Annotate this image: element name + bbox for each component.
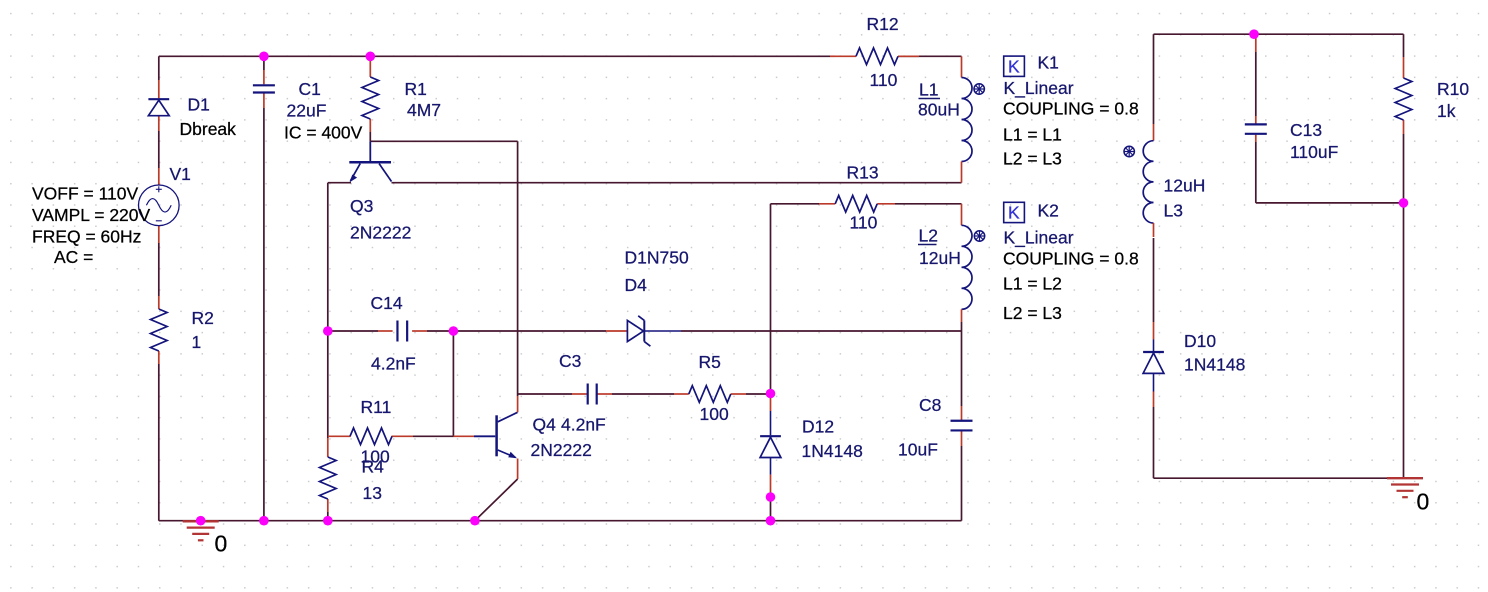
capacitor C3 (572, 393, 587, 395)
diode D12 (770, 394, 772, 411)
svg-text:12uH: 12uH (919, 248, 961, 268)
svg-text:1k: 1k (1437, 101, 1456, 121)
phase dot L2 (974, 231, 984, 241)
svg-text:C3: C3 (559, 351, 581, 371)
inductor L2 (961, 204, 963, 226)
capacitor C8 (961, 406, 963, 421)
svg-text:K: K (1008, 203, 1020, 223)
svg-text:R1: R1 (405, 79, 427, 99)
wire R13 line left vertical (770, 204, 772, 394)
wire C13 to R10 junction (1256, 202, 1404, 204)
svg-text:Dbreak: Dbreak (180, 119, 237, 139)
svg-text:K_Linear: K_Linear (1004, 78, 1074, 99)
svg-text:R4: R4 (362, 457, 385, 477)
svg-text:D1: D1 (188, 95, 210, 115)
svg-text:K: K (1008, 57, 1020, 77)
svg-text:22uF: 22uF (287, 101, 327, 121)
svg-text:D10: D10 (1184, 331, 1216, 351)
svg-text:K2: K2 (1038, 201, 1059, 221)
wire D12 to bottom (770, 497, 772, 521)
capacitor C1 (263, 70, 265, 84)
coupling K1 (1004, 56, 1025, 76)
wire left column upper (158, 56, 160, 80)
phase dot L3 (1124, 146, 1134, 156)
svg-text:10uF: 10uF (898, 440, 938, 460)
svg-text:1N4148: 1N4148 (1184, 355, 1245, 375)
phase dot L1 (974, 84, 984, 94)
svg-text:4.2nF: 4.2nF (371, 354, 416, 374)
resistor R13 (819, 203, 835, 205)
junction right top (1249, 29, 1259, 39)
wire C14 left to R11 corner (327, 331, 329, 438)
wire Q3 emitter to left column (328, 182, 351, 184)
svg-text:L3: L3 (1164, 201, 1183, 221)
wire D10 to corner (1153, 407, 1155, 478)
svg-text:13: 13 (363, 483, 382, 503)
svg-text:110: 110 (870, 70, 898, 90)
wire bottom bus (159, 520, 962, 522)
svg-text:0: 0 (1417, 489, 1430, 515)
svg-text:R13: R13 (847, 163, 879, 183)
wire D1 to V1 (158, 131, 160, 168)
resistor R11 (328, 435, 351, 437)
wire Q4 collector column (517, 141, 519, 396)
wire L2 bottom to C8 line (961, 322, 963, 331)
svg-text:110uF: 110uF (1290, 142, 1338, 162)
wire L3 to D10 (1153, 238, 1155, 322)
svg-text:C8: C8 (919, 395, 941, 415)
junction bottom ground (196, 516, 206, 526)
wire C8 column lower (961, 446, 963, 521)
svg-text:R10: R10 (1437, 79, 1469, 99)
wire R10 junction to ground (1403, 203, 1405, 478)
svg-text:L1 = L2: L1 = L2 (1003, 274, 1062, 294)
wire C3 line left (518, 393, 572, 395)
svg-text:0: 0 (215, 531, 228, 557)
ground left (183, 520, 219, 522)
svg-text:D12: D12 (802, 417, 834, 437)
junction bottom C1 (259, 516, 269, 526)
wire C14 line right (427, 330, 453, 332)
svg-text:Q4: Q4 (533, 415, 557, 435)
resistor R4 (327, 438, 329, 457)
svg-text:R5: R5 (699, 352, 721, 372)
wire C14 right stem down (452, 331, 454, 437)
svg-text:12uH: 12uH (1164, 176, 1206, 196)
svg-text:1N4148: 1N4148 (802, 441, 863, 461)
resistor R2 (158, 296, 160, 309)
svg-text:L1 = L1: L1 = L1 (1003, 125, 1062, 145)
wire C1 column (263, 56, 265, 70)
wire C8 column upper (961, 331, 963, 406)
junction bottom R4 (323, 516, 333, 526)
svg-text:100: 100 (700, 404, 729, 424)
resistor R12 (830, 55, 835, 57)
wire D4 line right (681, 330, 962, 332)
svg-text:L2 = L3: L2 = L3 (1003, 303, 1062, 323)
wire R1 lower lead to branch (369, 132, 371, 141)
wire Q4 emitter diagonal (475, 479, 518, 521)
svg-text:R11: R11 (361, 397, 392, 417)
junction top R1 (366, 52, 376, 62)
svg-text:L1: L1 (919, 80, 938, 100)
wire V1 to R2 (158, 243, 160, 296)
resistor R5 (674, 393, 689, 395)
wire D4 line left (453, 330, 606, 332)
resistor R1 (369, 56, 371, 77)
wire R10 column top (1403, 34, 1405, 57)
svg-text:80uH: 80uH (918, 100, 960, 120)
wire R2 to bottom (158, 364, 160, 521)
svg-text:R2: R2 (192, 308, 214, 328)
svg-text:K1: K1 (1038, 53, 1059, 73)
wire right bottom (1154, 477, 1404, 479)
junction right mid (1399, 198, 1409, 208)
svg-text:FREQ = 60Hz: FREQ = 60Hz (32, 227, 141, 247)
junction R5 right (766, 389, 776, 399)
svg-text:VOFF = 110V: VOFF = 110V (32, 184, 139, 204)
resistor R10 (1403, 57, 1405, 78)
svg-text:4M7: 4M7 (407, 100, 441, 120)
wire L3 column upper (1153, 34, 1155, 124)
svg-text:2N2222: 2N2222 (531, 440, 592, 460)
diode D1 (158, 80, 160, 98)
wire R4 bottom stub (327, 512, 329, 521)
wire R1 branch horizontal (370, 140, 517, 142)
coupling K2 (1004, 202, 1025, 222)
svg-text:Q3: Q3 (350, 196, 373, 216)
wire R5 to D12 column (746, 393, 771, 395)
svg-text:1: 1 (192, 332, 202, 352)
wire C13 column (1255, 52, 1257, 116)
capacitor C14 (378, 330, 393, 332)
svg-text:L2 = L3: L2 = L3 (1003, 149, 1062, 169)
svg-text:D4: D4 (625, 275, 648, 295)
svg-text:K_Linear: K_Linear (1004, 228, 1074, 249)
svg-text:IC = 400V: IC = 400V (284, 123, 363, 143)
diode D10 (1153, 322, 1155, 340)
wire top bus (159, 55, 830, 57)
wire Q3 collector to L1 (392, 182, 962, 184)
wire C3 to R5 (612, 393, 674, 395)
svg-text:AC =: AC = (54, 247, 93, 267)
svg-text:R12: R12 (867, 14, 899, 34)
wire right top bus (1154, 33, 1404, 35)
wire R13 line (771, 203, 820, 205)
junction C14 left (323, 326, 333, 336)
capacitor C13 (1255, 34, 1257, 52)
wire C13 bottom corner (1255, 142, 1257, 203)
junction bottom D12 (766, 516, 776, 526)
ground right (1387, 477, 1423, 479)
svg-text:COUPLING = 0.8: COUPLING = 0.8 (1003, 249, 1139, 269)
svg-text:C1: C1 (299, 79, 321, 99)
junction D12 bottom (766, 492, 776, 502)
wire C14 line left (328, 330, 378, 332)
wire left small column (327, 183, 329, 331)
junction bottom Q4 (470, 516, 480, 526)
svg-text:4.2nF: 4.2nF (561, 415, 606, 435)
wire R10 to junction (1403, 134, 1405, 203)
svg-text:C13: C13 (1290, 120, 1322, 140)
svg-text:V1: V1 (170, 164, 191, 184)
svg-text:110: 110 (850, 213, 878, 233)
zener diode D4 (606, 330, 627, 332)
inductor L1 (961, 56, 963, 77)
svg-text:C14: C14 (371, 293, 403, 313)
junction top C1 (259, 52, 269, 62)
inductor L3 (1153, 124, 1155, 141)
transistor Q3 (369, 141, 371, 161)
svg-text:L2: L2 (919, 226, 938, 246)
junction C14 right (449, 326, 459, 336)
source V1 (158, 168, 160, 185)
transistor Q4 (495, 415, 498, 456)
svg-text:COUPLING = 0.8: COUPLING = 0.8 (1003, 99, 1139, 119)
svg-text:2N2222: 2N2222 (350, 223, 411, 243)
svg-text:D1N750: D1N750 (625, 248, 689, 268)
svg-text:VAMPL = 220V: VAMPL = 220V (32, 205, 151, 225)
